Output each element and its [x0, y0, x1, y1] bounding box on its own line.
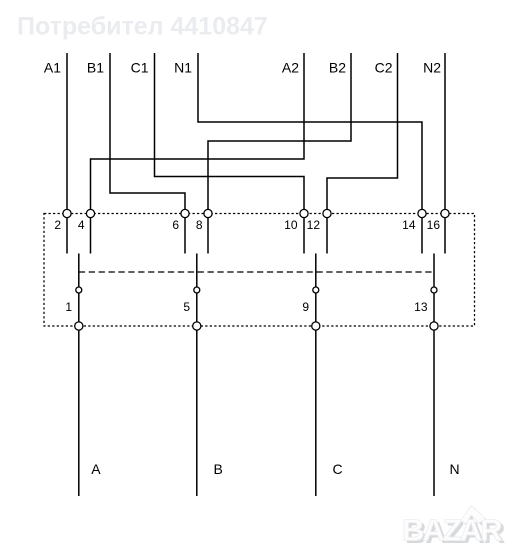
switch linkage dashed line	[79, 271, 434, 273]
svg-text:9: 9	[302, 300, 309, 314]
wire C1 to terminal 10	[155, 53, 305, 210]
terminal 16	[441, 209, 449, 217]
terminal 2	[63, 209, 71, 217]
terminal 14	[418, 209, 426, 217]
terminal 4	[86, 209, 94, 217]
svg-text:4: 4	[78, 218, 85, 232]
bottom terminal A	[75, 322, 83, 330]
svg-text:6: 6	[172, 218, 179, 232]
wire A2 to terminal 4	[91, 53, 305, 210]
svg-text:1: 1	[65, 300, 72, 314]
stub below terminal 8	[207, 218, 209, 254]
svg-text:BAZAR: BAZAR	[402, 513, 502, 548]
stub below terminal 12	[326, 218, 328, 254]
svg-text:10: 10	[284, 218, 298, 232]
wire C2 to terminal 12	[327, 53, 398, 210]
svg-text:N: N	[450, 461, 460, 477]
bottom terminal N	[430, 322, 438, 330]
stub below terminal 16	[444, 218, 446, 254]
svg-text:8: 8	[196, 218, 203, 232]
stub below terminal 14	[421, 218, 423, 254]
pole wire 9 phase C	[315, 254, 317, 497]
pole wire 13 neutral	[433, 254, 435, 497]
pole wire 1 phase A	[78, 254, 80, 497]
svg-text:12: 12	[307, 218, 321, 232]
svg-text:A1: A1	[44, 60, 61, 76]
pole wire 5 phase B	[196, 254, 198, 497]
svg-text:13: 13	[414, 300, 428, 314]
svg-text:2: 2	[54, 218, 61, 232]
stub below terminal 2	[66, 218, 68, 254]
watermark bazar logo	[402, 506, 505, 551]
contact 1	[76, 287, 82, 293]
stub below terminal 10	[303, 218, 305, 254]
svg-text:N1: N1	[174, 60, 192, 76]
stub below terminal 4	[90, 218, 92, 254]
stub below terminal 6	[184, 218, 186, 254]
terminal 10	[300, 209, 308, 217]
terminal 12	[323, 209, 331, 217]
svg-text:A: A	[91, 461, 101, 477]
wire A1 to terminal 2	[66, 53, 68, 210]
svg-text:14: 14	[402, 218, 416, 232]
svg-text:C2: C2	[375, 60, 393, 76]
terminal 6	[181, 209, 189, 217]
contact 5	[194, 287, 200, 293]
terminal 8	[204, 209, 212, 217]
svg-text:A2: A2	[282, 60, 299, 76]
svg-text:B2: B2	[329, 60, 346, 76]
wire B1 to terminal 6	[110, 53, 185, 210]
bottom terminal B	[193, 322, 201, 330]
wire N1 to terminal 14	[198, 53, 422, 210]
switch enclosure dotted box	[44, 214, 475, 327]
svg-text:N2: N2	[423, 60, 441, 76]
svg-text:C: C	[333, 461, 343, 477]
contact 9	[313, 287, 319, 293]
svg-text:16: 16	[427, 218, 441, 232]
wire B2 to terminal 8	[208, 53, 351, 210]
svg-text:B: B	[214, 461, 223, 477]
svg-text:C1: C1	[131, 60, 149, 76]
bottom terminal C	[312, 322, 320, 330]
svg-text:5: 5	[183, 300, 190, 314]
contact 13	[431, 287, 437, 293]
wire N2 to terminal 16	[444, 53, 446, 210]
svg-text:B1: B1	[87, 60, 104, 76]
svg-text:Потребител 4410847: Потребител 4410847	[17, 13, 268, 41]
